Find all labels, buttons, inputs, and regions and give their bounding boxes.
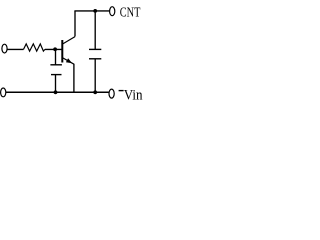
wire emitter down — [73, 64, 75, 92]
terminal -Vin — [109, 89, 114, 98]
label minus sign — [119, 90, 124, 92]
capacitor C1 stem bottom — [55, 75, 57, 93]
wire resistor to base — [45, 48, 63, 50]
node bottom right junction — [93, 90, 97, 94]
wire top rail — [74, 10, 109, 12]
svg-text:Vin: Vin — [124, 87, 143, 103]
wire bottom rail — [6, 91, 109, 93]
capacitor C2 stem top — [94, 11, 96, 49]
capacitor C2 — [89, 49, 101, 58]
wire collector up — [74, 11, 76, 37]
node bottom left junction — [54, 90, 58, 94]
node base junction — [53, 47, 57, 51]
capacitor C2 stem bottom — [94, 59, 96, 93]
terminal CNT — [110, 7, 115, 16]
resistor R1 — [24, 44, 45, 51]
terminal left-top — [2, 44, 7, 53]
wire base input — [7, 48, 23, 50]
node top rail junction — [93, 9, 97, 13]
svg-text:CNT: CNT — [120, 6, 141, 21]
transistor Q1 — [62, 37, 75, 65]
capacitor C1 — [50, 65, 62, 75]
capacitor C1 stem top — [55, 49, 57, 65]
terminal left-bottom — [1, 88, 6, 97]
